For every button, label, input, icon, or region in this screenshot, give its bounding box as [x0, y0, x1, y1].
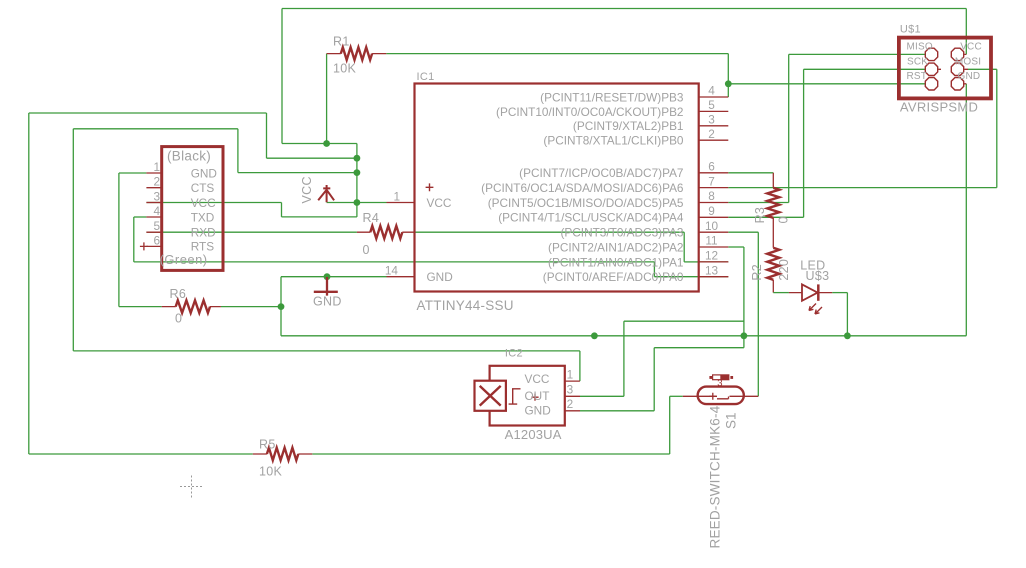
svg-text:A1203UA: A1203UA [505, 427, 562, 442]
svg-text:VCC: VCC [525, 372, 550, 386]
wire R4 to PA3 row [414, 231, 684, 233]
svg-text:GND: GND [313, 295, 342, 309]
junction GND rail mid [591, 332, 598, 339]
svg-text:10K: 10K [333, 62, 357, 76]
FTDI pin stubs [146, 173, 161, 246]
svg-text:220: 220 [777, 259, 791, 281]
wire FTDI GND drop [118, 173, 120, 307]
wire pin10 drop to S1 [757, 232, 759, 396]
svg-text:R5: R5 [259, 438, 276, 452]
svg-text:GND: GND [525, 403, 551, 417]
svg-text:1: 1 [567, 367, 574, 381]
svg-text:AVRISPSMD: AVRISPSMD [900, 99, 978, 114]
svg-text:TXD: TXD [191, 210, 215, 224]
svg-text:1: 1 [393, 189, 400, 203]
IC2 pin stubs [565, 381, 580, 411]
wire IC2 VCC riser [579, 351, 581, 381]
wire FTDI VCC jog up [356, 203, 358, 217]
svg-text:RTS: RTS [191, 240, 215, 254]
svg-text:3: 3 [708, 113, 715, 127]
VCC supply symbol [318, 185, 334, 202]
svg-text:RXD: RXD [191, 226, 216, 240]
wire IC2 OUT stub row [580, 395, 624, 397]
svg-text:3: 3 [567, 382, 574, 396]
resistor R5 [253, 453, 312, 455]
wire VCC row B [267, 157, 357, 159]
svg-text:3: 3 [717, 378, 722, 389]
wire FTDI VCC row [162, 202, 282, 204]
svg-text:OUT: OUT [525, 389, 550, 403]
svg-text:R4: R4 [363, 211, 380, 225]
wire over pin13 stub [699, 276, 729, 278]
wire over pin12 stub [699, 261, 729, 263]
wire VCC drop to U$1 VCC pad [965, 9, 967, 55]
U$1 pad MISO [925, 48, 937, 60]
wire VCC to IC2 row [73, 350, 580, 352]
svg-text:11: 11 [705, 234, 717, 248]
junction RESET/RST [725, 80, 732, 87]
wire GND rail [281, 335, 966, 337]
svg-text:(PCINT10/INT0/OC0A/CKOUT)PB2: (PCINT10/INT0/OC0A/CKOUT)PB2 [496, 105, 683, 119]
wire VCC vertical x356.9 [356, 144, 358, 203]
svg-text:5: 5 [153, 219, 160, 233]
svg-text:U$3: U$3 [806, 269, 830, 283]
svg-text:3: 3 [153, 190, 160, 204]
wire over FTDI RXD stub [146, 231, 161, 233]
LED U$3 anode wire [773, 292, 789, 294]
GND symbol [314, 277, 338, 296]
junction VCC row B [354, 155, 361, 162]
svg-text:VCC: VCC [300, 176, 314, 203]
svg-text:4: 4 [153, 204, 160, 218]
wire R1 to RESET [386, 53, 728, 55]
wire FTDI GND to R6 [119, 306, 162, 308]
wire TXD drop [133, 217, 135, 262]
wire VCC top-left drop [281, 9, 283, 144]
wire MOSI row from pin7 [728, 187, 997, 189]
svg-text:(PCINT6/OC1A/SDA/MOSI/ADC6)PA6: (PCINT6/OC1A/SDA/MOSI/ADC6)PA6 [481, 181, 684, 195]
wire VCC left rail [28, 113, 30, 454]
wire MOSI riser [996, 69, 998, 187]
svg-text:2: 2 [567, 397, 574, 411]
wire IC2 GND jog row [654, 347, 744, 349]
svg-text:10: 10 [705, 219, 719, 233]
U$1 ISP header box [899, 38, 991, 99]
wire FTDI GND stub row [119, 172, 146, 174]
FTDI header box [162, 147, 223, 271]
junction GND symbol [324, 273, 331, 280]
wire MOSI top row [968, 68, 997, 70]
svg-text:R3: R3 [753, 207, 767, 224]
svg-text:S1: S1 [724, 412, 739, 429]
svg-text:13: 13 [705, 263, 719, 277]
wire GND drop to rail [280, 307, 282, 336]
svg-text:RST: RST [907, 71, 928, 82]
junction GND rail IC2 [741, 332, 748, 339]
svg-text:GND: GND [427, 270, 453, 284]
wire VCC second horizontal [73, 128, 238, 130]
wire VCC x73.3 drop [72, 129, 74, 351]
wire FTDI VCC jog row [282, 216, 357, 218]
svg-text:GND: GND [958, 71, 981, 82]
wire VCC upper-left horizontal [29, 112, 267, 114]
svg-text:0: 0 [777, 216, 791, 223]
U$1 pad GND [951, 78, 963, 90]
IC2 box [490, 366, 565, 426]
wire TXD stub row [134, 216, 147, 218]
wire R1 left riser [326, 54, 328, 144]
svg-text:0: 0 [363, 243, 370, 257]
svg-text:(PCINT0/AREF/ADC0)PA0: (PCINT0/AREF/ADC0)PA0 [543, 270, 684, 284]
wire MISO row from pin8 [728, 202, 788, 204]
svg-text:2: 2 [708, 127, 715, 141]
resistor R6 [162, 306, 221, 308]
svg-text:(Black): (Black) [167, 149, 211, 164]
S1 reed switch body [698, 387, 744, 405]
svg-text:VCC: VCC [960, 41, 982, 52]
junction VCC row C [354, 169, 361, 176]
wire FTDI VCC jog down [281, 203, 283, 217]
junction GND rail LED [844, 332, 851, 339]
wire VCC row B riser [266, 113, 268, 158]
wire pin11 drop [743, 247, 745, 336]
svg-text:R1: R1 [333, 35, 350, 49]
wire RST to U$1 [728, 83, 925, 85]
wire R5 right row [312, 453, 669, 455]
wire R5 left row [29, 453, 253, 455]
IC2 hysteresis glyph [509, 389, 521, 404]
LED U$3 [789, 292, 832, 294]
FTDI origin cross [140, 242, 148, 250]
wire RESET drop to pin4 [727, 54, 729, 97]
svg-text:(PCINT1/AIN0/ADC1)PA1: (PCINT1/AIN0/ADC1)PA1 [548, 255, 683, 269]
svg-text:5: 5 [708, 98, 715, 112]
svg-text:(PCINT5/OC1B/MISO/DO/ADC5)PA5: (PCINT5/OC1B/MISO/DO/ADC5)PA5 [488, 196, 684, 210]
wire pin6 to R3 [728, 172, 773, 174]
wire SCK riser [803, 69, 805, 217]
U$1 pad MOSI [951, 63, 963, 75]
svg-text:R2: R2 [750, 264, 764, 281]
svg-text:7: 7 [708, 174, 715, 188]
wire pin10 row [728, 231, 758, 233]
wire GND riser to pin14 row [280, 277, 282, 307]
svg-text:(PCINT9/XTAL2)PB1: (PCINT9/XTAL2)PB1 [573, 119, 684, 133]
LED arrows [809, 304, 816, 311]
svg-text:8: 8 [708, 189, 715, 203]
wire jog to pin13 [654, 276, 698, 278]
wire RXD to R4 [162, 231, 357, 233]
wire pin11 row [728, 246, 744, 248]
svg-text:(PCINT8/XTAL1/CLKI)PB0: (PCINT8/XTAL1/CLKI)PB0 [543, 134, 684, 148]
svg-text:MISO: MISO [907, 41, 933, 52]
wire IC2 OUT row [624, 320, 744, 322]
svg-text:(PCINT4/T1/SCL/USCK/ADC4)PA4: (PCINT4/T1/SCL/USCK/ADC4)PA4 [498, 211, 684, 225]
junction VCC pin1 [354, 199, 361, 206]
wire LED cathode drop [846, 293, 848, 336]
svg-text:(Green): (Green) [160, 252, 208, 267]
wire U$1 GND drop [965, 84, 967, 336]
wire SCK row from pin9 [728, 216, 803, 218]
resistor R2 [772, 280, 774, 293]
IC1 right pin stubs [699, 97, 729, 277]
wire MISO riser [788, 54, 790, 202]
IC2 origin cross [531, 394, 538, 401]
wire IC2 GND stub row [580, 410, 654, 412]
S1 contacts [683, 396, 759, 399]
wire PA3 jog down [683, 232, 685, 262]
svg-text:(PCINT2/AIN1/ADC2)PA2: (PCINT2/AIN1/ADC2)PA2 [548, 240, 683, 254]
wire TXD to PA1 row [134, 261, 655, 263]
junction R1/VCC row A [323, 140, 330, 147]
S1 reed glass icon [709, 376, 712, 379]
svg-text:(PCINT3/T0/ADC3)PA3: (PCINT3/T0/ADC3)PA3 [560, 226, 683, 240]
svg-text:IC2: IC2 [505, 348, 523, 360]
wire VCC row A [282, 143, 357, 145]
svg-text:9: 9 [708, 204, 715, 218]
wire VCC symbol to IC1 pin1 [327, 202, 387, 204]
wire IC2 OUT riser [623, 321, 625, 396]
resistor R1 [327, 53, 387, 55]
wire rail to IC2 GND jog [743, 336, 745, 348]
wire MISO top row [789, 53, 926, 55]
wire jog to pin12 [684, 261, 699, 263]
wire PA1 jog down [653, 262, 655, 277]
resistor R4 [357, 231, 414, 233]
wire IC2 GND drop [653, 348, 655, 411]
svg-text:2: 2 [153, 175, 160, 189]
svg-text:ATTINY44-SSU: ATTINY44-SSU [417, 298, 514, 313]
IC1 VCC plus mark [426, 183, 434, 191]
LED cathode wire [832, 292, 847, 294]
wire VCC row C [238, 172, 357, 174]
wire S1 left row [670, 395, 683, 397]
svg-text:6: 6 [153, 233, 160, 247]
svg-text:VCC: VCC [427, 196, 452, 210]
IC1 box [415, 84, 699, 292]
wire pin14 GND row [281, 276, 387, 278]
svg-text:CTS: CTS [191, 181, 215, 195]
IC1 left pin stubs [387, 203, 415, 277]
wire R6 right [221, 306, 281, 308]
svg-text:1: 1 [153, 160, 160, 174]
wire S1 left riser [669, 396, 671, 454]
svg-text:U$1: U$1 [900, 23, 921, 35]
svg-text:14: 14 [385, 264, 399, 278]
svg-text:10K: 10K [259, 465, 283, 479]
wire SCK top row [804, 68, 926, 70]
IC2 X sensor square [475, 381, 506, 411]
wire VCC top rail [282, 8, 966, 10]
svg-text:(PCINT7/ICP/OC0B/ADC7)PA7: (PCINT7/ICP/OC0B/ADC7)PA7 [519, 166, 683, 180]
svg-text:12: 12 [705, 249, 718, 263]
svg-text:4: 4 [708, 84, 715, 98]
svg-text:GND: GND [191, 166, 217, 180]
svg-text:MOSI: MOSI [955, 56, 981, 67]
svg-text:6: 6 [708, 160, 715, 174]
svg-text:VCC: VCC [191, 196, 216, 210]
svg-text:(PCINT11/RESET/DW)PB3: (PCINT11/RESET/DW)PB3 [540, 90, 684, 104]
U$1 pad stubs [938, 54, 968, 83]
resistor R3 [772, 173, 774, 248]
U$1 pad RST [925, 78, 937, 90]
svg-text:REED-SWITCH-MK6-4: REED-SWITCH-MK6-4 [708, 405, 723, 548]
wire over FTDI VCC stub [146, 202, 161, 204]
svg-text:SCK: SCK [907, 56, 928, 67]
U$1 pad SCK [925, 63, 937, 75]
U$1 pad VCC [951, 48, 963, 60]
svg-text:R6: R6 [170, 287, 187, 301]
svg-text:IC1: IC1 [417, 71, 435, 83]
svg-text:0: 0 [175, 312, 182, 326]
junction R6 right [278, 303, 285, 310]
wire VCC row C riser [237, 129, 239, 173]
origin crosshair [180, 486, 203, 488]
